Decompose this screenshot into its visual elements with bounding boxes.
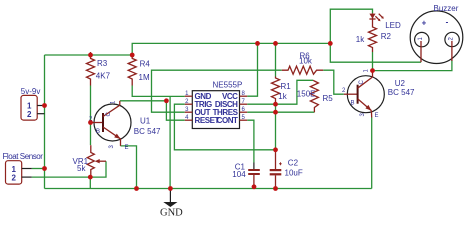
junction 5v-9v pin1 on supply wire <box>42 103 47 108</box>
buzzer SG1 <box>410 4 463 64</box>
svg-text:E: E <box>375 113 379 119</box>
wire DISCH pin7 extension to R5 top <box>247 80 313 104</box>
junction R1 top on top rail <box>273 41 278 46</box>
resistor R6 10k horizontal <box>282 51 323 74</box>
wire R2 bottom to collector node <box>372 52 374 71</box>
transistor U2 BC547 <box>342 69 415 120</box>
wire VCC pin8 up to rail <box>247 43 257 96</box>
resistor R3 4K7 <box>87 52 111 86</box>
svg-text:GND: GND <box>160 208 183 219</box>
svg-text:10k: 10k <box>299 57 313 66</box>
IC U3 NE555P timer <box>185 80 247 128</box>
wire R4 bottom to 555 pin1 <box>132 86 185 97</box>
wire R1 column top <box>275 43 277 76</box>
svg-text:R4: R4 <box>140 60 151 69</box>
wire R6 right to U2 base <box>323 70 344 94</box>
svg-text:2: 2 <box>27 110 32 119</box>
wire THRES pin6 extension to R5 bottom <box>247 111 314 113</box>
svg-text:B: B <box>351 101 355 107</box>
svg-text:4K7: 4K7 <box>96 72 111 81</box>
resistor R2 1k LED series <box>356 26 392 53</box>
junction VR1 bottom wiper node <box>88 175 93 180</box>
junction TRIG THRES C2 node <box>273 147 278 152</box>
junction U1 emitter on ground rail <box>134 186 139 191</box>
svg-text:U2: U2 <box>395 79 406 88</box>
resistor R4 1M <box>128 55 150 86</box>
pin stubs right <box>240 95 248 97</box>
wire U1 collector line <box>120 100 166 102</box>
svg-text:5k: 5k <box>77 164 86 173</box>
resistor R1 1k <box>272 77 292 105</box>
wire top-left VCC rail y=55 <box>45 54 133 56</box>
junction C1 bottom on ground rail <box>252 184 257 189</box>
connector 5v-9v supply <box>21 87 45 120</box>
svg-text:BC 547: BC 547 <box>388 88 415 97</box>
ground symbol GND <box>160 189 183 219</box>
junction R1 bottom DISCH node <box>273 102 278 107</box>
junction U1 collector to RESET <box>164 98 169 103</box>
junction C2 bottom on ground rail <box>273 186 278 191</box>
capacitor C1 104 <box>232 162 259 188</box>
wire top VCC rail y=43.4 <box>132 43 330 55</box>
svg-text:R1: R1 <box>281 82 292 91</box>
wire VR1 wiper loop <box>90 161 106 177</box>
wire bottom ground rail <box>45 188 372 190</box>
wire U2 emitter down to ground rail <box>371 118 373 189</box>
svg-text:Float Sensor: Float Sensor <box>3 152 44 161</box>
svg-text:CONT: CONT <box>217 116 238 125</box>
junction U2 collector node <box>370 68 375 73</box>
svg-text:1k: 1k <box>278 92 287 101</box>
junction VCC pin8 on top rail <box>255 41 260 46</box>
svg-text:1k: 1k <box>356 35 365 44</box>
wire CONT pin5 to C1 <box>247 120 254 162</box>
svg-text:5v-9v: 5v-9v <box>21 87 41 96</box>
svg-text:C2: C2 <box>288 158 299 167</box>
wire collector to RESET pin4 <box>166 101 184 120</box>
junction THRES node <box>273 110 278 115</box>
transistor U1 BC547 <box>89 100 161 151</box>
connector Float Sensor <box>3 152 44 184</box>
junction Float Sensor pin1 on supply wire <box>42 166 47 171</box>
junction GND symbol on ground rail <box>168 186 173 191</box>
wire float sensor pin1 to supply vertical <box>32 168 45 170</box>
svg-text:150E: 150E <box>297 90 316 99</box>
svg-text:10uF: 10uF <box>285 169 303 178</box>
svg-text:E: E <box>125 145 129 151</box>
resistor R5 150E <box>297 80 333 112</box>
svg-text:2: 2 <box>12 174 17 183</box>
svg-text:-: - <box>446 18 449 27</box>
LED D1 <box>369 13 401 30</box>
wire left supply vertical x=44.5 <box>44 55 46 189</box>
wire LED feed top <box>330 9 372 43</box>
svg-text:B: B <box>96 129 100 135</box>
wire OUT pin3 to R6 <box>152 70 282 112</box>
svg-text:U1: U1 <box>140 117 151 126</box>
wire GND drop from pin1 line to ground rail <box>169 96 171 188</box>
wire R3 column base feed <box>90 86 92 146</box>
svg-text:+: + <box>422 19 427 28</box>
junction R3 top on VCC rail <box>88 53 93 58</box>
svg-text:R3: R3 <box>97 59 108 68</box>
svg-text:NE555P: NE555P <box>213 80 243 89</box>
potentiometer VR1 5k <box>73 145 107 177</box>
wire U1 emitter to ground rail <box>121 146 137 189</box>
junction U1 base node <box>88 120 93 125</box>
wire VR1 bottom to ground rail <box>89 177 91 188</box>
svg-text:R5: R5 <box>323 94 334 103</box>
junction R4 top on VCC rail <box>130 53 135 58</box>
wire buzzer plus from VCC <box>330 43 421 62</box>
svg-text:C: C <box>106 112 112 117</box>
junction LED branch on top rail <box>328 41 333 46</box>
svg-text:C: C <box>359 80 365 85</box>
wire float sensor pin2 to VR1 bottom <box>32 176 91 178</box>
capacitor C2 10uF polarized <box>270 150 303 189</box>
svg-text:R2: R2 <box>381 32 392 41</box>
wire R1 bottom DISCH THRES column <box>275 103 277 150</box>
wire TRIG pin2 down and right to THRES node <box>174 104 275 150</box>
svg-text:Buzzer: Buzzer <box>434 4 459 13</box>
svg-text:LED: LED <box>385 21 401 30</box>
pin stubs left <box>185 95 193 97</box>
svg-text:1M: 1M <box>139 73 150 82</box>
svg-text:104: 104 <box>232 170 246 179</box>
svg-text:BC 547: BC 547 <box>134 127 161 136</box>
wire buzzer minus to collector node <box>373 60 452 71</box>
